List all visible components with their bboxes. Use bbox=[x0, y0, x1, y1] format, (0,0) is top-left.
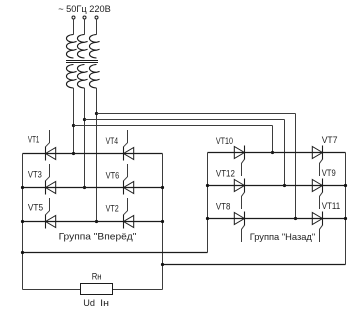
junction phase C to reverse row 3 bbox=[294, 217, 297, 220]
junction right bus / row 2 bbox=[161, 186, 164, 189]
transformer T1 primary winding phase A bbox=[66, 35, 76, 59]
thyristor VT6 bbox=[124, 182, 134, 194]
svg-text:VT11: VT11 bbox=[322, 201, 341, 211]
svg-text:VT12: VT12 bbox=[216, 169, 235, 179]
junction forward right bus / DC link bbox=[161, 263, 164, 266]
junction reverse right bus / row 3 bbox=[344, 217, 347, 220]
wire terminal B to primary winding bbox=[84, 19, 86, 34]
wire secondary phase C down to forward-bridge row 3 bbox=[96, 88, 98, 222]
junction right bus / row 3 bbox=[161, 220, 164, 223]
svg-text:VT1: VT1 bbox=[28, 135, 40, 145]
wire reverse-bridge left bus bbox=[207, 153, 209, 253]
wire secondary phase B down to forward-bridge row 2 bbox=[84, 88, 86, 188]
thyristor VT2 bbox=[124, 216, 134, 228]
thyristor VT9 bbox=[312, 180, 322, 192]
transformer T1 core bbox=[66, 60, 98, 62]
wire terminal C to primary winding bbox=[96, 19, 98, 34]
wire forward-bridge left bus (cathode bus) bbox=[22, 154, 24, 290]
thyristor VT8 bbox=[234, 213, 244, 225]
svg-text:VT4: VT4 bbox=[106, 136, 119, 146]
wire DC link: forward right bus to reverse right bus bbox=[163, 264, 346, 266]
svg-text:Rн: Rн bbox=[92, 272, 102, 282]
wire reverse-bridge right bus bbox=[345, 153, 347, 265]
transformer T1 secondary winding phase B bbox=[77, 65, 87, 89]
wire terminal A to primary winding bbox=[73, 19, 75, 34]
terminal phase C bbox=[95, 16, 98, 19]
junction reverse left bus / row 3 bbox=[206, 217, 209, 220]
resistor Rн (load) bbox=[81, 284, 113, 295]
junction phase A to forward row 1 bbox=[72, 152, 75, 155]
wire phase B feed to reverse bridge (vertical) bbox=[284, 120, 286, 186]
junction phase A to reverse row 1 bbox=[271, 151, 274, 154]
junction forward left bus / DC link bbox=[21, 251, 24, 254]
wire forward-bridge row 1 bbox=[23, 153, 163, 155]
svg-text:VT9: VT9 bbox=[322, 168, 336, 178]
wire forward-bridge row 3 bbox=[23, 221, 163, 223]
terminal phase A bbox=[72, 16, 75, 19]
junction phase B tap bbox=[83, 118, 86, 121]
wire phase B feed to reverse bridge (horizontal) bbox=[85, 119, 285, 121]
wire secondary phase A down to forward-bridge row 1 bbox=[73, 88, 75, 154]
thyristor VT5 bbox=[46, 216, 56, 228]
wire forward-bridge right bus (anode bus) bbox=[162, 154, 164, 290]
wire phase A feed to reverse bridge (vertical) bbox=[272, 126, 274, 153]
svg-text:Ud: Ud bbox=[83, 297, 95, 308]
svg-text:Группа "Назад": Группа "Назад" bbox=[250, 232, 316, 243]
transformer T1 secondary winding phase A bbox=[66, 65, 76, 89]
svg-text:VT3: VT3 bbox=[28, 169, 42, 179]
wire load line right bbox=[113, 289, 163, 291]
junction reverse left bus / row 2 bbox=[206, 184, 209, 187]
svg-text:VT7: VT7 bbox=[322, 135, 338, 145]
svg-text:VT8: VT8 bbox=[216, 202, 231, 212]
wire phase C feed to reverse bridge (vertical) bbox=[295, 114, 297, 219]
junction phase B to reverse row 2 bbox=[283, 184, 286, 187]
junction phase C to forward row 3 bbox=[95, 220, 98, 223]
wire phase C feed to reverse bridge (horizontal) bbox=[97, 113, 296, 115]
wire reverse-bridge row 2 bbox=[208, 185, 346, 187]
thyristor VT3 bbox=[46, 182, 56, 194]
junction left bus / row 3 bbox=[21, 220, 24, 223]
thyristor VT12 bbox=[234, 180, 244, 192]
svg-text:VT6: VT6 bbox=[106, 170, 120, 180]
junction phase C tap bbox=[95, 112, 98, 115]
junction reverse right bus / row 2 bbox=[344, 184, 347, 187]
svg-text:VT10: VT10 bbox=[216, 136, 233, 146]
junction left bus / row 2 bbox=[21, 186, 24, 189]
transformer T1 primary winding phase C bbox=[89, 35, 99, 59]
svg-text:VT5: VT5 bbox=[28, 202, 43, 212]
wire DC link: forward left bus to reverse left bus bbox=[23, 252, 208, 254]
junction phase A tap bbox=[72, 124, 75, 127]
wire reverse-bridge row 1 bbox=[208, 152, 346, 154]
svg-text:Группа "Вперёд": Группа "Вперёд" bbox=[59, 232, 137, 243]
thyristor VT4 bbox=[124, 148, 134, 160]
terminal phase B bbox=[83, 16, 86, 19]
svg-text:Iн: Iн bbox=[100, 297, 109, 308]
svg-text:VT2: VT2 bbox=[106, 203, 119, 213]
svg-text:~ 50Гц 220В: ~ 50Гц 220В bbox=[58, 3, 111, 14]
thyristor VT10 bbox=[234, 147, 244, 159]
thyristor VT11 bbox=[312, 213, 322, 225]
wire phase A feed to reverse bridge (horizontal) bbox=[74, 125, 273, 127]
junction phase B to forward row 2 bbox=[83, 186, 86, 189]
wire load line left bbox=[23, 289, 81, 291]
wire forward-bridge row 2 bbox=[23, 187, 163, 189]
transformer T1 secondary winding phase C bbox=[89, 65, 99, 89]
transformer T1 primary winding phase B bbox=[77, 35, 87, 59]
wire reverse-bridge row 3 bbox=[208, 218, 346, 220]
thyristor VT1 bbox=[46, 148, 56, 160]
thyristor VT7 bbox=[312, 147, 322, 159]
